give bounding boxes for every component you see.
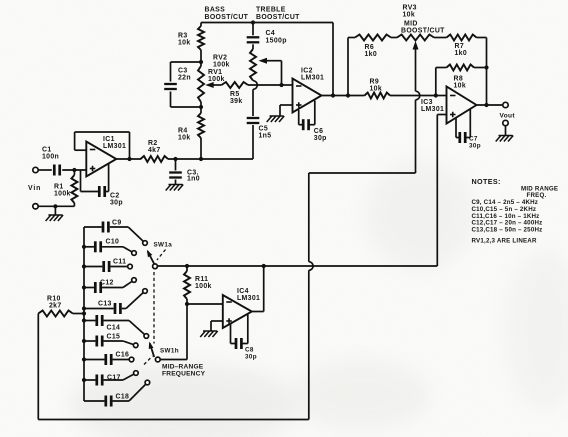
svg-text:C16: C16: [116, 352, 130, 359]
svg-text:C10: C10: [106, 239, 120, 246]
svg-text:10k: 10k: [454, 83, 467, 90]
svg-text:LM301: LM301: [103, 143, 126, 150]
svg-text:R1: R1: [54, 184, 64, 191]
svg-text:C17: C17: [107, 375, 121, 382]
svg-text:IC3: IC3: [421, 99, 433, 106]
svg-text:RV1,2,3 ARE LINEAR: RV1,2,3 ARE LINEAR: [472, 238, 537, 245]
svg-text:C13,C18 – 50n – 250Hz: C13,C18 – 50n – 250Hz: [472, 227, 543, 234]
svg-text:1n5: 1n5: [259, 133, 272, 140]
svg-text:22n: 22n: [178, 75, 191, 82]
svg-text:30p: 30p: [469, 143, 481, 150]
svg-text:100k: 100k: [195, 283, 212, 290]
svg-text:C12: C12: [100, 280, 114, 287]
svg-text:C7: C7: [469, 136, 478, 143]
svg-text:R10: R10: [47, 296, 61, 303]
svg-text:C13: C13: [98, 301, 112, 308]
svg-text:Vin: Vin: [28, 185, 41, 192]
svg-text:BOOST/CUT: BOOST/CUT: [256, 14, 300, 21]
svg-text:4k7: 4k7: [148, 147, 161, 154]
svg-text:BOOST/CUT: BOOST/CUT: [205, 14, 249, 21]
svg-text:BOOST/CUT: BOOST/CUT: [401, 28, 445, 35]
svg-text:1500p: 1500p: [266, 38, 287, 45]
svg-text:2k7: 2k7: [49, 303, 62, 310]
svg-text:IC1: IC1: [103, 136, 115, 143]
svg-text:FREQUENCY: FREQUENCY: [162, 371, 206, 378]
svg-text:C15: C15: [107, 334, 121, 341]
svg-text:39k: 39k: [230, 98, 243, 105]
svg-text:LM301: LM301: [237, 295, 260, 302]
svg-text:100n: 100n: [42, 154, 59, 161]
svg-text:10k: 10k: [178, 40, 191, 47]
svg-text:R9: R9: [370, 79, 380, 86]
svg-text:C5: C5: [259, 126, 269, 133]
svg-text:RV1: RV1: [208, 69, 222, 76]
svg-text:C4: C4: [266, 30, 276, 37]
svg-text:R5: R5: [230, 91, 240, 98]
svg-text:100k: 100k: [208, 76, 225, 83]
svg-text:C14: C14: [107, 325, 121, 332]
svg-text:C11: C11: [113, 259, 126, 266]
svg-text:BASS: BASS: [205, 7, 226, 14]
svg-text:NOTES:: NOTES:: [472, 177, 501, 186]
svg-text:R11: R11: [195, 276, 208, 283]
svg-text:R6: R6: [365, 44, 375, 51]
svg-text:R8: R8: [454, 76, 464, 83]
svg-text:LM301: LM301: [301, 75, 324, 82]
svg-text:IC4: IC4: [237, 288, 249, 295]
svg-text:30p: 30p: [314, 135, 327, 142]
svg-text:R4: R4: [178, 128, 188, 135]
svg-text:1k0: 1k0: [455, 50, 468, 57]
svg-text:30p: 30p: [110, 200, 123, 207]
svg-text:RV2: RV2: [213, 55, 227, 62]
svg-text:1n0: 1n0: [187, 176, 200, 183]
svg-text:R3: R3: [178, 33, 188, 40]
svg-text:100k: 100k: [54, 191, 71, 198]
svg-text:C18: C18: [116, 394, 130, 401]
svg-text:1k0: 1k0: [365, 51, 378, 58]
svg-text:LM301: LM301: [421, 106, 444, 113]
svg-text:C1: C1: [42, 147, 52, 154]
svg-text:R2: R2: [148, 140, 158, 147]
svg-text:C2: C2: [110, 193, 120, 200]
svg-text:100k: 100k: [213, 62, 230, 69]
svg-text:C9: C9: [112, 220, 122, 227]
svg-text:TREBLE: TREBLE: [256, 7, 286, 14]
svg-text:10k: 10k: [178, 135, 191, 142]
svg-text:SW1a: SW1a: [154, 242, 173, 249]
svg-text:RV3: RV3: [403, 5, 417, 12]
svg-text:30p: 30p: [245, 354, 257, 361]
svg-text:IC2: IC2: [301, 68, 313, 75]
svg-text:C6: C6: [314, 128, 324, 135]
svg-text:R7: R7: [455, 43, 465, 50]
svg-text:C8: C8: [245, 347, 254, 354]
svg-text:C3: C3: [178, 68, 188, 75]
svg-text:10k: 10k: [370, 86, 383, 93]
svg-text:10k: 10k: [403, 12, 416, 19]
svg-text:FREQ.: FREQ.: [527, 192, 547, 199]
svg-text:MID–RANGE: MID–RANGE: [162, 364, 204, 371]
svg-text:SW1h: SW1h: [160, 348, 179, 355]
svg-text:Vout: Vout: [500, 113, 516, 120]
svg-text:MID: MID: [404, 21, 418, 28]
